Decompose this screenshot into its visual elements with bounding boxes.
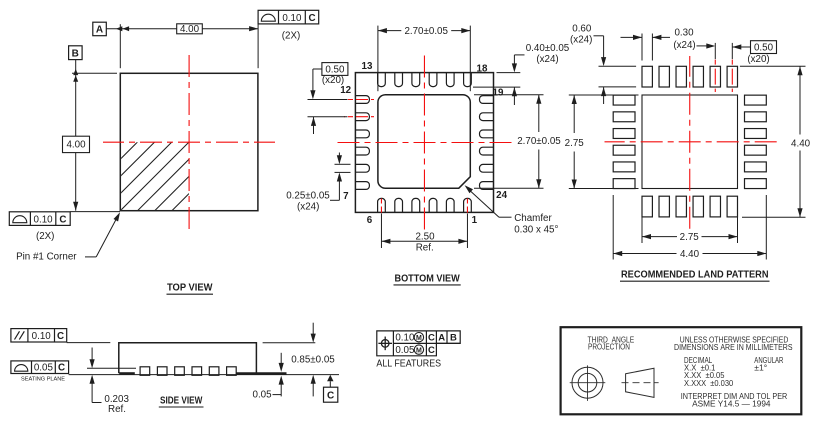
lead thick segments: [119, 372, 286, 375]
svg-text:4.40: 4.40: [680, 249, 700, 260]
svg-text:1: 1: [472, 215, 478, 226]
svg-text:0.25±0.05: 0.25±0.05: [286, 191, 330, 202]
dim 2.75 vertical (land): [565, 95, 639, 189]
svg-text:0.50: 0.50: [754, 42, 774, 53]
svg-text:C: C: [59, 214, 66, 225]
svg-text:Ref.: Ref.: [108, 404, 126, 415]
svg-text:C: C: [327, 391, 334, 402]
svg-text:B: B: [450, 333, 457, 344]
lead top line: [87, 367, 136, 369]
svg-text:0.40±0.05: 0.40±0.05: [526, 43, 570, 54]
pin 1 corner hatch: [69, 142, 258, 211]
svg-text:0.85±0.05: 0.85±0.05: [291, 355, 335, 366]
svg-text:13: 13: [362, 61, 373, 72]
svg-text:0.30 x 45°: 0.30 x 45°: [514, 225, 558, 236]
dim 0.50 (x20) land pitch: [715, 41, 776, 65]
svg-text:0.50: 0.50: [325, 64, 345, 75]
bottom view top pad row (pins 13-18): [378, 73, 472, 87]
svg-text:X.XXX ±0.030: X.XXX ±0.030: [684, 378, 733, 388]
svg-text:12: 12: [340, 85, 351, 96]
dim 0.50 (x20) pad pitch: [308, 63, 348, 134]
bottom view package outline: [355, 73, 493, 213]
dim 4.40 vertical (land): [740, 66, 811, 217]
pin 1 corner label: [16, 212, 120, 262]
svg-text:C: C: [428, 345, 435, 356]
svg-text:0.30: 0.30: [674, 28, 694, 39]
dim 0.85 +/-0.05 body height: [263, 323, 336, 397]
bottom view center lines: [333, 53, 513, 232]
svg-text:18: 18: [477, 63, 488, 74]
svg-text:0.05: 0.05: [395, 345, 415, 356]
dim 0.60 (x24) land pad length: [570, 24, 636, 104]
svg-text:6: 6: [367, 215, 373, 226]
svg-text:0.10: 0.10: [395, 333, 415, 344]
datum B: [69, 46, 83, 60]
side view package body: [119, 343, 257, 374]
top view center lines: [103, 55, 275, 231]
svg-text:19: 19: [493, 87, 504, 98]
dim 0.203 Ref: [90, 348, 130, 415]
top surface extension line: [67, 342, 111, 344]
dim 2.70 +/-0.05 vertical (exposed pad): [474, 95, 561, 189]
svg-text:0.10: 0.10: [282, 13, 302, 24]
svg-text:M: M: [416, 348, 422, 355]
svg-text:M: M: [416, 335, 422, 342]
profile tolerance frame 0.10 C (2X) upper: [258, 10, 319, 41]
svg-text:C: C: [428, 333, 435, 344]
red marks land pads 5-6: [715, 56, 732, 92]
seating plane line: [69, 374, 339, 376]
svg-text:0.60: 0.60: [572, 24, 592, 35]
bottom view bottom pad row (pins 1-6): [378, 198, 472, 212]
svg-text:C: C: [308, 13, 315, 24]
svg-text:ASME Y14.5 — 1994: ASME Y14.5 — 1994: [692, 398, 771, 408]
profile tolerance frame 0.10 C (2X) lower: [9, 212, 70, 242]
svg-text:Chamfer: Chamfer: [514, 213, 552, 224]
title block notes: [674, 334, 793, 408]
top view package outline: [120, 73, 258, 210]
svg-text:7: 7: [343, 191, 349, 202]
dim 0.40 +/-0.05 (x24) pad length: [473, 43, 570, 105]
title block border: [561, 327, 802, 414]
svg-text:(2X): (2X): [282, 30, 301, 41]
land pattern bottom pads: [642, 196, 738, 217]
svg-text:±1°: ±1°: [754, 363, 767, 373]
svg-text:(x20): (x20): [322, 75, 344, 86]
svg-text:Pin #1 Corner: Pin #1 Corner: [16, 251, 77, 262]
dim 0.25 +/-0.05 (x24) pad width: [286, 153, 350, 213]
dim 0.30 (x24) land pad width: [621, 28, 716, 61]
svg-text:24: 24: [496, 190, 507, 201]
chamfer 0.30 x 45 callout: [465, 185, 559, 235]
dim 0.05 standoff: [253, 353, 284, 401]
dim 4.40 horizontal (land): [613, 195, 766, 260]
projection cone symbol trapezoid: [622, 368, 659, 397]
land pattern left pads: [613, 95, 635, 188]
svg-text:(x24): (x24): [673, 40, 695, 51]
svg-text:A: A: [96, 24, 103, 35]
pin labels bottom view: [340, 61, 507, 226]
svg-text:C: C: [57, 331, 64, 342]
SIDE VIEW title: [159, 395, 204, 407]
svg-text:4.00: 4.00: [180, 24, 200, 35]
svg-text:Ref.: Ref.: [416, 243, 434, 254]
datum A: [93, 22, 107, 36]
svg-text:BOTTOM VIEW: BOTTOM VIEW: [395, 273, 461, 284]
svg-text:0.05: 0.05: [253, 389, 273, 400]
svg-text:A: A: [438, 333, 445, 344]
svg-text:SEATING PLANE: SEATING PLANE: [21, 377, 65, 383]
land pattern center lines: [605, 56, 778, 231]
svg-text:(x24): (x24): [536, 54, 558, 65]
dim 4.00 horizontal (top view): [106, 24, 258, 68]
svg-text:(2X): (2X): [36, 231, 55, 242]
dim 2.50 Ref: [381, 214, 467, 254]
svg-text:TOP VIEW: TOP VIEW: [167, 283, 213, 294]
red pitch marks pins 12-11: [344, 100, 374, 117]
svg-text:2.75: 2.75: [565, 138, 585, 149]
bottom view left pad column (pins 7-12): [355, 96, 369, 190]
RECOMMENDED LAND PATTERN title: [620, 269, 770, 281]
ALL FEATURES label: [376, 358, 441, 369]
projection cone symbol circle: [570, 365, 606, 401]
svg-text:4.00: 4.00: [66, 140, 86, 151]
svg-text:2.70±0.05: 2.70±0.05: [517, 136, 561, 147]
side view leads: [140, 367, 236, 376]
datum C: [324, 375, 338, 402]
position tolerance frame: [377, 331, 460, 356]
profile frame 0.05 C seating plane: [11, 361, 69, 383]
parallelism frame 0.10 C: [11, 329, 67, 343]
BOTTOM VIEW title: [394, 273, 461, 285]
land pattern center pad: [642, 95, 738, 189]
svg-text:ALL FEATURES: ALL FEATURES: [376, 358, 441, 369]
svg-text:0.10: 0.10: [32, 331, 52, 342]
svg-text:2.70±0.05: 2.70±0.05: [404, 26, 448, 37]
svg-text:(x24): (x24): [570, 35, 592, 46]
svg-text:PROJECTION: PROJECTION: [588, 342, 630, 352]
svg-text:2.50: 2.50: [415, 231, 435, 242]
svg-text:C: C: [58, 363, 65, 374]
third angle projection label: [588, 334, 635, 351]
dim 2.75 horizontal (land): [642, 196, 738, 243]
dim 2.70 +/-0.05 horizontal (exposed pad): [378, 26, 470, 92]
svg-text:(x24): (x24): [297, 202, 319, 213]
svg-text:2.75: 2.75: [680, 232, 700, 243]
svg-text:B: B: [72, 48, 79, 59]
bottom view exposed pad: [378, 95, 470, 189]
svg-text:4.40: 4.40: [791, 138, 811, 149]
land pattern right pads: [745, 95, 767, 188]
svg-text:SIDE VIEW: SIDE VIEW: [160, 395, 203, 406]
red marks pins 6 and 1: [381, 199, 467, 213]
svg-text:(x20): (x20): [747, 54, 769, 65]
svg-text:DIMENSIONS ARE IN MILLIMETERS: DIMENSIONS ARE IN MILLIMETERS: [674, 342, 793, 352]
svg-text:0.05: 0.05: [34, 363, 54, 374]
svg-text:RECOMMENDED LAND PATTERN: RECOMMENDED LAND PATTERN: [621, 269, 769, 280]
land pattern top pads: [642, 66, 738, 87]
bottom view right pad column (pins 19-24): [480, 96, 494, 190]
TOP VIEW title: [167, 283, 214, 295]
dim 4.00 vertical (top view): [63, 60, 121, 212]
svg-text:0.10: 0.10: [34, 214, 54, 225]
